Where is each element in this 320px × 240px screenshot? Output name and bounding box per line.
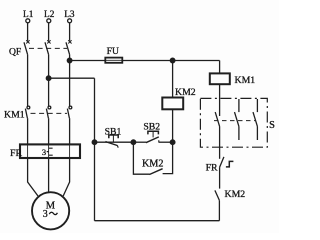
node L1 terminal bbox=[26, 19, 30, 23]
wires through FR box bbox=[27, 144, 29, 158]
contactor KM1 main pole 1 bbox=[25, 106, 29, 118]
wire FR to motor left bbox=[28, 158, 38, 196]
contact KM2 aux normally-open bbox=[149, 169, 162, 175]
node junction SB1/KM2 aux bbox=[131, 140, 136, 145]
KM1 linkage dashed bbox=[31, 112, 68, 114]
svg-text:KM1: KM1 bbox=[4, 109, 25, 120]
wire KM2 coil to row bbox=[172, 109, 174, 142]
switch S pole 1 blade bbox=[215, 112, 219, 126]
wire bottom rail bbox=[95, 220, 220, 222]
wire KM2 aux branch right bbox=[163, 142, 173, 173]
svg-text:L1: L1 bbox=[23, 10, 34, 20]
breaker QF pole 2 bbox=[45, 40, 51, 54]
node junction FU line to KM2 coil bbox=[170, 58, 175, 63]
coil KM2 bbox=[162, 98, 183, 110]
wire L1 QF to KM1 contact bbox=[27, 55, 29, 107]
FR heater symbol bbox=[47, 148, 53, 155]
wire KM2 contact to bottom rail bbox=[218, 200, 220, 220]
thermal relay FR heater box bbox=[20, 144, 80, 158]
wire L2 KM1 to FR box bbox=[48, 118, 50, 144]
wire FR contact to KM2 contact bbox=[219, 167, 221, 188]
svg-text:KM2: KM2 bbox=[175, 87, 196, 98]
svg-text:QF: QF bbox=[9, 46, 21, 57]
wire L1 KM1 to FR box bbox=[27, 118, 29, 144]
wire L1 down to QF bbox=[27, 23, 29, 41]
fuse FU bbox=[105, 58, 122, 63]
node junction on L2 to control left rail bbox=[46, 76, 51, 81]
QF linkage dashed bbox=[29, 47, 67, 49]
node L2 terminal bbox=[47, 19, 51, 23]
wire L2 down to QF bbox=[48, 23, 50, 41]
thermal contact FR normally-closed bbox=[220, 157, 234, 167]
switch S enclosure dash-dot box bbox=[200, 98, 267, 147]
wire L2 QF to KM1 contact bbox=[48, 55, 50, 107]
pushbutton SB1 normally-closed bbox=[105, 135, 118, 148]
svg-text:KM1: KM1 bbox=[235, 75, 256, 86]
wire KM1 coil to S box bbox=[219, 84, 221, 116]
breaker QF pole 3 bbox=[66, 40, 72, 54]
node junction control rail / SB1 row bbox=[92, 140, 97, 145]
node junction on L3 to FU bbox=[67, 58, 72, 63]
breaker QF pole 1 bbox=[24, 40, 30, 54]
coil KM1 bbox=[210, 73, 230, 84]
wire junction to SB2 bbox=[133, 141, 146, 143]
svg-text:KM2: KM2 bbox=[225, 189, 246, 200]
svg-text:S: S bbox=[269, 120, 275, 131]
svg-text:3: 3 bbox=[42, 147, 46, 157]
wire L3 down to QF bbox=[69, 23, 71, 41]
pushbutton SB2 normally-open bbox=[146, 131, 159, 143]
svg-text:FR: FR bbox=[206, 163, 218, 174]
node L3 terminal bbox=[68, 19, 72, 23]
contactor KM1 main pole 3 bbox=[67, 106, 71, 118]
svg-text:L2: L2 bbox=[44, 10, 55, 20]
svg-text:FU: FU bbox=[107, 46, 119, 57]
wire FR to motor middle bbox=[48, 158, 50, 192]
motor M circle bbox=[32, 192, 69, 229]
wire control left rail bbox=[94, 78, 96, 221]
wire to KM1 coil bbox=[219, 61, 221, 74]
svg-text:FR: FR bbox=[10, 148, 22, 159]
wire FR to motor right bbox=[63, 158, 69, 196]
svg-text:SB2: SB2 bbox=[143, 122, 160, 133]
wire S pole1 to FR contact bbox=[219, 126, 221, 158]
switch S pole 2 bbox=[235, 99, 239, 140]
wire L3 KM1 to FR box bbox=[69, 118, 71, 144]
wire row to SB1 bbox=[95, 141, 134, 143]
node junction SB2/KM2 coil branch bbox=[170, 140, 175, 145]
contact KM2 normally-open (in KM1 branch) bbox=[215, 190, 220, 200]
svg-text:3: 3 bbox=[43, 209, 48, 220]
wire L3 QF to KM1 contact bbox=[69, 55, 71, 107]
svg-text:SB1: SB1 bbox=[105, 126, 122, 137]
wire KM2 coil drop from FU line bbox=[172, 61, 174, 98]
wire KM2 aux branch left bbox=[133, 142, 149, 174]
control wire FU line from L3 bbox=[70, 60, 220, 62]
S linkage dashed bbox=[214, 120, 256, 122]
switch S pole 3 bbox=[253, 99, 257, 140]
wire L2 branch to control rail bbox=[49, 77, 95, 79]
svg-text:L3: L3 bbox=[64, 10, 75, 20]
svg-text:KM2: KM2 bbox=[142, 158, 164, 169]
wire SB2 to junction bbox=[159, 141, 173, 143]
contactor KM1 main pole 2 bbox=[46, 106, 50, 118]
